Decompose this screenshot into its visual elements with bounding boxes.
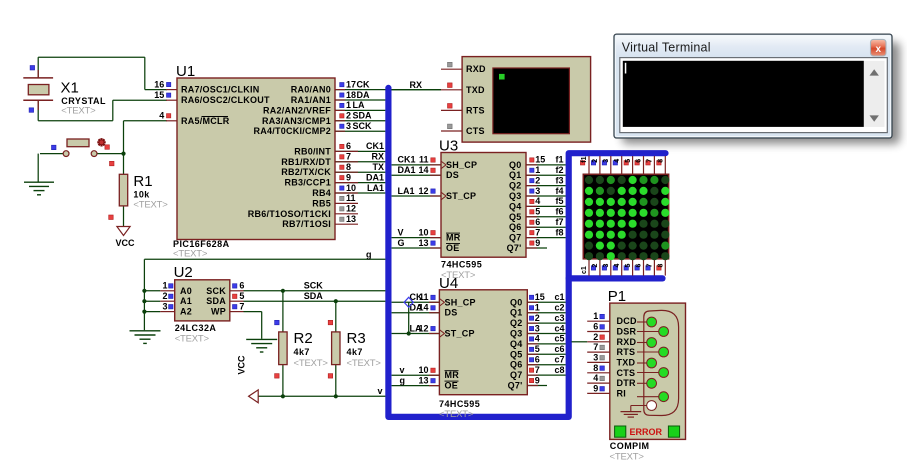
svg-text:3: 3	[346, 121, 351, 131]
U1 pin 6 RB0/INT	[294, 141, 385, 156]
svg-text:c7: c7	[554, 355, 564, 365]
resistor R2 4k7	[275, 291, 329, 397]
svg-text:ERROR: ERROR	[630, 427, 663, 437]
svg-text:4: 4	[614, 159, 621, 163]
svg-text:1: 1	[593, 311, 598, 321]
svg-text:DA: DA	[357, 90, 370, 100]
svg-text:RA2/AN2/VREF: RA2/AN2/VREF	[263, 105, 331, 115]
matrix top pin 1	[580, 156, 589, 174]
svg-text:5: 5	[535, 344, 540, 354]
matrix top pin 5	[624, 156, 633, 174]
svg-text:6: 6	[593, 322, 598, 332]
svg-text:R3: R3	[347, 330, 366, 347]
svg-text:LA1: LA1	[398, 186, 415, 196]
junction R2 bottom	[281, 394, 285, 398]
svg-text:11: 11	[346, 193, 356, 203]
svg-text:U2: U2	[174, 264, 193, 281]
svg-text:10: 10	[346, 183, 356, 193]
U4 pin 5 Q5	[510, 344, 566, 359]
P1 pin 4 DTR	[587, 373, 656, 388]
connector P1 COMPIM body	[608, 288, 686, 462]
svg-text:Q0: Q0	[509, 160, 522, 170]
svg-text:Q1: Q1	[509, 170, 522, 180]
matrix bottom pin 7	[646, 259, 655, 276]
U1 pin 13 RB7/T1OSI	[282, 214, 358, 229]
svg-text:TXD: TXD	[466, 85, 485, 95]
U4 pin 4 Q4	[510, 334, 566, 349]
svg-text:<TEXT>: <TEXT>	[294, 358, 329, 369]
junction R3 bottom	[334, 394, 338, 398]
wire U1 pin4 MCLR to button junction	[124, 121, 168, 154]
svg-text:DCD: DCD	[617, 316, 637, 326]
svg-text:RB7/T1OSI: RB7/T1OSI	[282, 219, 331, 229]
svg-text:2: 2	[593, 332, 598, 342]
svg-text:11: 11	[419, 155, 429, 165]
svg-text:5: 5	[239, 291, 244, 301]
svg-text:MR: MR	[446, 233, 461, 243]
matrix top pin 2	[591, 156, 600, 174]
svg-text:TX: TX	[372, 162, 384, 172]
U1 pin 7 RB1/RX/DT	[281, 152, 385, 167]
svg-text:6: 6	[535, 355, 540, 365]
P1 ERROR indicators	[615, 426, 680, 437]
svg-text:c1: c1	[581, 266, 588, 274]
svg-text:RA0/AN0: RA0/AN0	[291, 85, 331, 95]
svg-text:3: 3	[603, 159, 610, 163]
svg-text:9: 9	[535, 238, 540, 248]
svg-text:LA: LA	[353, 100, 365, 110]
svg-text:R2: R2	[294, 330, 313, 347]
svg-text:1: 1	[346, 100, 351, 110]
svg-text:Q7: Q7	[510, 370, 523, 380]
svg-text:RB0/INT: RB0/INT	[294, 146, 331, 156]
svg-text:v: v	[377, 386, 382, 396]
svg-text:CK1: CK1	[366, 141, 384, 151]
svg-text:<TEXT>: <TEXT>	[173, 249, 208, 260]
svg-text:1: 1	[535, 165, 540, 175]
svg-text:RX: RX	[410, 80, 423, 90]
svg-text:<TEXT>: <TEXT>	[133, 200, 168, 211]
wire RX from bus to terminal TXD	[388, 80, 441, 90]
svg-text:f8: f8	[555, 227, 563, 237]
svg-text:Q2: Q2	[509, 181, 522, 191]
virtual terminal component body	[462, 57, 590, 143]
svg-text:U3: U3	[439, 138, 458, 155]
wire branch diamond on CK net	[404, 297, 413, 333]
svg-text:3: 3	[593, 352, 598, 362]
svg-text:2: 2	[535, 313, 540, 323]
svg-text:RA6/OSC2/CLKOUT: RA6/OSC2/CLKOUT	[181, 95, 270, 105]
svg-text:RX: RX	[371, 152, 384, 162]
svg-text:2: 2	[592, 264, 599, 268]
svg-text:CRYSTAL: CRYSTAL	[61, 96, 106, 106]
window close button	[871, 39, 887, 56]
U1 pin 16 RA7/OSC1/CLKIN	[154, 79, 259, 94]
svg-text:DA1: DA1	[398, 165, 416, 175]
svg-text:P1: P1	[608, 288, 626, 305]
svg-text:OE: OE	[445, 381, 459, 391]
crystal X1	[23, 66, 106, 117]
svg-text:<TEXT>: <TEXT>	[439, 409, 474, 420]
svg-text:TXD: TXD	[617, 357, 636, 367]
U4 pin 7 Q7	[510, 365, 566, 380]
svg-text:Q5: Q5	[509, 212, 522, 222]
matrix bottom pin 3	[602, 259, 611, 276]
U4 pin 3 Q3	[510, 323, 566, 338]
U4 pin 14 DS net DA	[392, 303, 458, 318]
svg-text:f5: f5	[555, 196, 563, 206]
svg-text:c3: c3	[554, 313, 564, 323]
svg-text:LA: LA	[410, 323, 422, 333]
svg-text:RA7/OSC1/CLKIN: RA7/OSC1/CLKIN	[181, 85, 260, 95]
svg-text:17: 17	[346, 79, 356, 89]
svg-text:24LC32A: 24LC32A	[175, 323, 217, 333]
junction R2 top SCK	[281, 289, 285, 293]
svg-text:SH_CP: SH_CP	[446, 160, 477, 170]
svg-text:DSR: DSR	[617, 327, 637, 337]
svg-text:g: g	[400, 375, 406, 385]
svg-text:4k7: 4k7	[294, 347, 310, 357]
svg-text:VCC: VCC	[237, 355, 247, 375]
U4 pin 15 Q0	[510, 292, 566, 307]
U1 pin 18 RA1/AN1 net DA	[291, 90, 386, 105]
U3 pin 3 Q3	[509, 186, 566, 201]
svg-text:15: 15	[154, 90, 164, 100]
P1 pin 9 RI	[587, 383, 668, 401]
svg-text:R1: R1	[133, 173, 152, 190]
svg-text:f1: f1	[555, 155, 563, 165]
LED matrix display body	[583, 174, 669, 260]
svg-text:5: 5	[625, 264, 632, 268]
virtual terminal pin RXD	[441, 62, 486, 74]
terminal client area	[620, 58, 888, 133]
svg-text:1: 1	[162, 281, 167, 291]
junction LA net	[407, 331, 411, 335]
matrix top pin 3	[602, 156, 611, 174]
junction U2 A2	[142, 310, 146, 314]
op U1 PIC16F628A body	[173, 63, 335, 260]
matrix bottom pin 5	[624, 259, 633, 276]
U2 pin 6 SCK	[206, 281, 244, 296]
P1 pin 8 CTS	[587, 363, 668, 378]
shift register U4 74HC595 body	[439, 275, 527, 420]
svg-text:c2: c2	[554, 303, 564, 313]
svg-text:6: 6	[239, 281, 244, 291]
svg-text:2: 2	[346, 111, 351, 121]
svg-text:10k: 10k	[133, 189, 150, 199]
svg-text:c4: c4	[554, 323, 564, 333]
svg-text:Q1: Q1	[510, 308, 523, 318]
P1 pin 1 DCD	[587, 311, 656, 327]
svg-text:c5: c5	[554, 334, 564, 344]
svg-text:7: 7	[346, 152, 351, 162]
svg-text:15: 15	[535, 155, 545, 165]
DB9 connector outline	[644, 310, 679, 415]
svg-text:V: V	[398, 227, 404, 237]
svg-text:Q2: Q2	[510, 318, 523, 328]
U3 pin 12 ST_CP net LA1	[392, 186, 477, 201]
P1 pin 2 RXD	[572, 332, 657, 348]
svg-text:12: 12	[346, 204, 356, 214]
wire crystal-bottom to U1 pin15	[38, 100, 167, 121]
U1 pin 17 RA0/AN0 net CK	[291, 79, 441, 94]
svg-text:4k7: 4k7	[347, 347, 363, 357]
wire VCC rail v net	[258, 386, 386, 397]
svg-text:Q4: Q4	[509, 201, 522, 211]
U2 pin 2 A1	[144, 291, 192, 306]
svg-text:Q7: Q7	[509, 233, 522, 243]
svg-text:7: 7	[535, 227, 540, 237]
svg-text:SDA: SDA	[353, 111, 373, 121]
U1 pin 1 RA2/AN2/VREF net LA	[263, 100, 385, 115]
U1 pin 10 RB4	[312, 183, 385, 198]
junction R3 top SDA	[334, 299, 338, 303]
power terminal VCC left arrow	[237, 355, 259, 403]
svg-text:7: 7	[535, 365, 540, 375]
svg-text:RTS: RTS	[617, 347, 636, 357]
svg-text:7: 7	[239, 301, 244, 311]
svg-text:7: 7	[647, 159, 654, 163]
svg-text:3: 3	[535, 323, 540, 333]
matrix bottom pin 6	[635, 259, 644, 276]
matrix bottom pin 8	[657, 259, 666, 276]
svg-text:16: 16	[154, 79, 164, 89]
svg-text:RI: RI	[617, 388, 627, 398]
U3 pin 7 Q7	[509, 227, 566, 242]
svg-text:ST_CP: ST_CP	[445, 329, 475, 339]
terminal cursor	[625, 63, 627, 74]
P1 pin 7 RTS	[587, 342, 668, 357]
svg-text:RXD: RXD	[466, 64, 486, 74]
svg-text:WP: WP	[211, 307, 226, 317]
svg-text:RB5: RB5	[312, 198, 331, 208]
svg-text:RTS: RTS	[466, 105, 485, 115]
svg-text:SH_CP: SH_CP	[445, 297, 476, 307]
svg-text:<TEXT>: <TEXT>	[610, 451, 645, 462]
svg-text:<TEXT>: <TEXT>	[347, 358, 382, 369]
button actuator star	[97, 138, 105, 146]
U3 pin 10 MR net V	[392, 227, 461, 242]
svg-text:DTR: DTR	[617, 378, 636, 388]
U4 pin 10 MR net v	[392, 365, 460, 380]
P1 shield ground pin (white circle)	[621, 401, 657, 418]
svg-text:Q7': Q7'	[508, 381, 523, 391]
svg-text:9: 9	[593, 383, 598, 393]
svg-text:CTS: CTS	[466, 126, 485, 136]
svg-text:SCK: SCK	[206, 286, 226, 296]
svg-text:c1: c1	[554, 292, 564, 302]
svg-text:SCK: SCK	[304, 281, 324, 291]
svg-text:13: 13	[346, 214, 356, 224]
svg-text:RA4/T0CKI/CMP2: RA4/T0CKI/CMP2	[253, 126, 331, 136]
svg-text:CTS: CTS	[617, 368, 636, 378]
svg-text:12: 12	[418, 186, 428, 196]
svg-text:Virtual Terminal: Virtual Terminal	[622, 40, 711, 54]
svg-text:Q3: Q3	[510, 329, 523, 339]
U2 pin 7 WP	[211, 301, 244, 316]
svg-text:8: 8	[658, 159, 665, 163]
U1 pin 3 RA4/T0CKI/CMP2 net SCK	[253, 121, 385, 136]
svg-text:8: 8	[593, 363, 598, 373]
svg-text:RB6/T1OSO/T1CKI: RB6/T1OSO/T1CKI	[248, 209, 331, 219]
bus main loop	[388, 88, 665, 417]
wire WP to ground	[244, 312, 262, 339]
virtual terminal pin TXD	[441, 83, 485, 95]
U3 pin 9 Q7'	[507, 238, 547, 253]
svg-text:A1: A1	[180, 296, 192, 306]
svg-text:2: 2	[535, 175, 540, 185]
matrix bottom pin 1	[581, 259, 589, 276]
resistor R1 10k	[109, 154, 169, 227]
U3 pin 2 Q2	[509, 175, 566, 190]
svg-text:VCC: VCC	[116, 238, 136, 248]
U4 pin 13 OE net g	[392, 375, 459, 390]
Virtual Terminal window	[614, 34, 900, 144]
P1 pin 3 TXD	[587, 352, 656, 368]
svg-text:G: G	[398, 238, 405, 248]
svg-text:DA1: DA1	[366, 172, 384, 182]
svg-text:RA3/AN3/CMP1: RA3/AN3/CMP1	[262, 116, 331, 126]
svg-text:4: 4	[159, 111, 164, 121]
U1 pin 2 RA3/AN3/CMP1 net SDA	[262, 111, 385, 126]
svg-text:3: 3	[162, 301, 167, 311]
svg-text:x: x	[876, 44, 882, 55]
shift register U3 74HC595 body	[439, 138, 526, 281]
matrix bottom pin 4	[613, 259, 622, 276]
svg-text:74HC595: 74HC595	[439, 399, 480, 409]
svg-text:5: 5	[535, 207, 540, 217]
U4 pin 9 Q7'	[508, 375, 547, 390]
svg-text:g: g	[366, 249, 372, 259]
bus branch to matrix bottom pins	[569, 275, 663, 281]
junction U2 A1	[142, 299, 146, 303]
U3 pin 6 Q6	[509, 217, 566, 232]
svg-text:9: 9	[535, 375, 540, 385]
svg-text:1: 1	[535, 303, 540, 313]
svg-text:c6: c6	[554, 344, 564, 354]
junction button/R1/MCLR	[121, 152, 125, 156]
svg-text:RB4: RB4	[312, 188, 331, 198]
svg-text:v: v	[400, 365, 405, 375]
svg-text:f4: f4	[555, 186, 563, 196]
svg-text:<TEXT>: <TEXT>	[61, 106, 96, 117]
U3 pin 4 Q4	[509, 196, 566, 211]
U1 pin 12 RB6/T1OSO/T1CKI	[248, 204, 358, 219]
P1 pin 6 DSR	[587, 322, 668, 337]
svg-text:SDA: SDA	[304, 291, 324, 301]
svg-text:f1: f1	[581, 156, 588, 162]
eeprom U2 24LC32A body	[174, 264, 230, 345]
U3 pin 14 DS net DA1	[392, 165, 459, 180]
svg-text:PIC16F628A: PIC16F628A	[173, 239, 230, 249]
U1 pin 9 RB3/CCP1	[284, 172, 385, 187]
svg-text:6: 6	[636, 159, 643, 163]
U1 pin 15 RA6/OSC2/CLKOUT	[154, 90, 270, 105]
svg-text:RA1/AN1: RA1/AN1	[291, 95, 331, 105]
svg-text:COMPIM: COMPIM	[610, 441, 650, 451]
matrix top pin 7	[646, 156, 655, 174]
svg-text:6: 6	[535, 217, 540, 227]
virtual terminal pin RTS	[441, 104, 485, 116]
svg-text:RA5/MCLR: RA5/MCLR	[181, 116, 230, 126]
U4 pin 2 Q2	[510, 313, 566, 328]
U2 pin 1 A0	[144, 281, 192, 296]
svg-text:5: 5	[625, 159, 632, 163]
svg-text:2: 2	[162, 291, 167, 301]
U3 pin 11 SH_CP net CK1	[392, 155, 478, 170]
svg-text:A0: A0	[180, 286, 192, 296]
U2 pin 3 A2	[144, 301, 192, 316]
U3 pin 5 Q5	[509, 207, 566, 222]
svg-text:13: 13	[418, 375, 428, 385]
U1 pin 4 RA5/MCLR	[159, 111, 229, 126]
matrix top pin 6	[635, 156, 644, 174]
wire SCK net	[244, 281, 386, 291]
svg-text:6: 6	[346, 141, 351, 151]
terminal scrollbar arrows	[870, 69, 879, 121]
svg-text:74HC595: 74HC595	[441, 260, 482, 270]
svg-text:Q0: Q0	[510, 297, 523, 307]
svg-text:ST_CP: ST_CP	[446, 191, 476, 201]
wire SDA net	[244, 291, 386, 301]
svg-text:2: 2	[592, 159, 599, 163]
svg-text:CK1: CK1	[398, 155, 416, 165]
power terminal VCC below R1	[116, 227, 136, 248]
svg-text:9: 9	[346, 172, 351, 182]
svg-text:OE: OE	[446, 243, 460, 253]
svg-text:<TEXT>: <TEXT>	[175, 334, 210, 345]
svg-text:10: 10	[418, 227, 428, 237]
wire crystal-top to U1 pin16	[38, 57, 167, 89]
wire g net: U2 grounds to bus	[144, 249, 385, 330]
matrix bottom pin 2	[591, 259, 600, 276]
svg-text:c8: c8	[554, 365, 564, 375]
resistor R3 4k7	[328, 301, 381, 396]
svg-text:f3: f3	[555, 175, 563, 185]
U3 pin 1 Q1	[509, 165, 566, 180]
svg-text:13: 13	[418, 238, 428, 248]
virtual terminal pin CTS	[441, 124, 485, 136]
svg-text:Q3: Q3	[509, 191, 522, 201]
svg-text:Q7': Q7'	[507, 243, 522, 253]
svg-text:RB3/CCP1: RB3/CCP1	[284, 178, 331, 188]
U1 pin 8 RB2/TX/CK	[281, 162, 385, 177]
U1 pin 11 RB5	[312, 193, 358, 208]
svg-text:A2: A2	[180, 307, 192, 317]
svg-text:4: 4	[593, 373, 598, 383]
svg-text:7: 7	[593, 342, 598, 352]
U4 pin 12 ST_CP net LA	[392, 323, 475, 338]
push button	[38, 139, 123, 182]
svg-text:15: 15	[535, 292, 545, 302]
svg-text:Q6: Q6	[510, 360, 523, 370]
U3 pin 13 OE net G	[392, 238, 460, 253]
matrix top pin 8	[657, 156, 666, 174]
ground under button	[24, 182, 54, 195]
U4 pin 6 Q6	[510, 355, 566, 370]
U4 pin 11 SH_CP net CK	[392, 292, 476, 307]
svg-text:LA1: LA1	[367, 183, 384, 193]
svg-text:3: 3	[603, 264, 610, 268]
svg-text:DS: DS	[445, 308, 458, 318]
svg-text:CK: CK	[357, 79, 370, 89]
svg-text:X1: X1	[61, 79, 79, 96]
svg-text:Q6: Q6	[509, 222, 522, 232]
svg-text:SDA: SDA	[206, 296, 226, 306]
svg-text:f7: f7	[555, 217, 563, 227]
svg-text:MR: MR	[445, 370, 460, 380]
svg-text:6: 6	[636, 264, 643, 268]
